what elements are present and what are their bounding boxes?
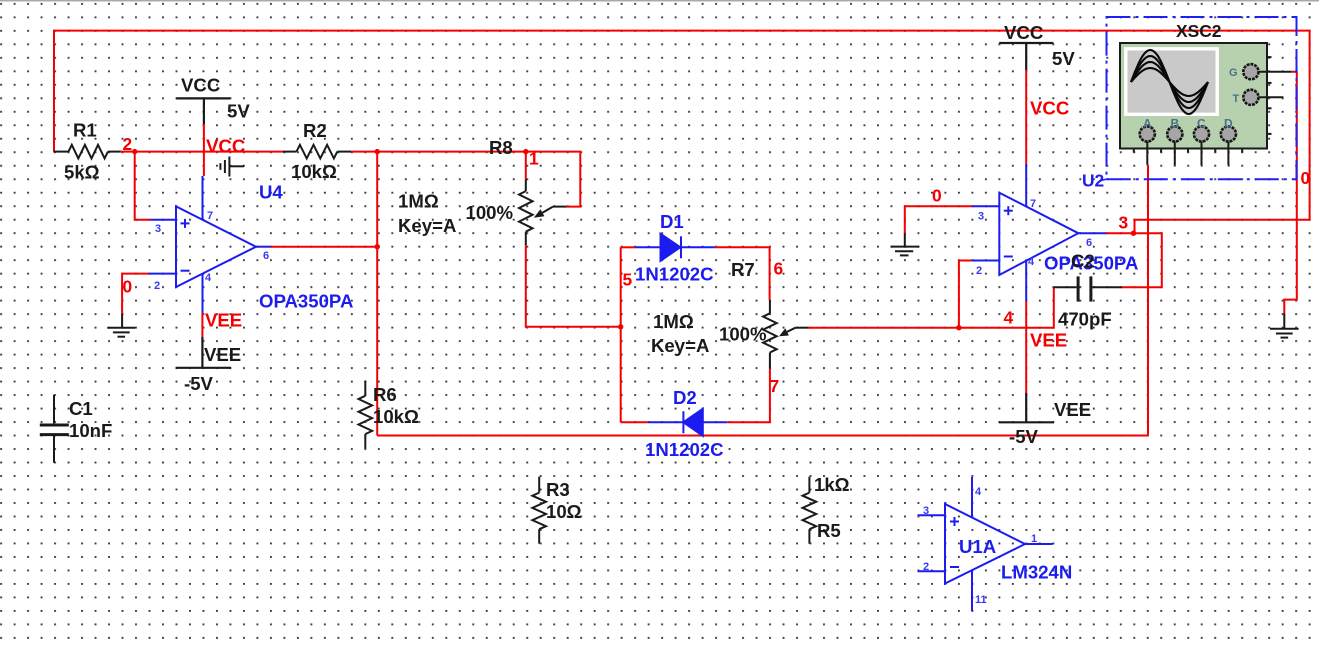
wire R8 top lead <box>525 152 527 180</box>
wire node 2 horizontal R1 to R2 <box>121 151 283 153</box>
svg-text:1: 1 <box>529 149 539 169</box>
chassis ground symbol (near VCC) <box>220 157 244 177</box>
scope channel stubs A B C D <box>1147 142 1228 166</box>
svg-text:1MΩ: 1MΩ <box>653 311 694 332</box>
svg-text:5V: 5V <box>227 101 250 122</box>
U2 leader line to selection box <box>1099 179 1107 181</box>
svg-text:10nF: 10nF <box>69 420 112 441</box>
svg-text:10kΩ: 10kΩ <box>291 161 337 182</box>
svg-text:LM324N: LM324N <box>1001 562 1072 583</box>
svg-text:2: 2 <box>154 280 160 292</box>
svg-text:C1: C1 <box>69 398 93 419</box>
svg-text:4: 4 <box>1028 256 1035 268</box>
svg-text:7: 7 <box>770 376 780 396</box>
svg-text:6: 6 <box>1086 237 1092 249</box>
wire scope G to ground net 0 <box>1284 72 1297 314</box>
svg-text:4: 4 <box>205 272 212 284</box>
wire node 4 R7 wiper to C2 <box>809 287 1054 327</box>
power VCC (U4) <box>176 98 230 124</box>
svg-text:XSC2: XSC2 <box>1176 21 1221 41</box>
svg-text:6: 6 <box>774 259 784 279</box>
node 3 junction <box>1131 231 1136 236</box>
scope terminal T wire <box>1258 96 1283 98</box>
resistor R6 <box>359 381 373 449</box>
svg-text:R2: R2 <box>303 120 327 141</box>
wire scope channel A vertical <box>1147 165 1149 436</box>
svg-text:VEE: VEE <box>205 310 242 331</box>
wire node 7 R7 bottom to D2 <box>727 369 770 423</box>
scope terminal T <box>1243 90 1258 105</box>
svg-text:U4: U4 <box>259 182 283 203</box>
svg-text:0: 0 <box>1301 168 1311 188</box>
scope bottom edge ticks <box>1134 149 1242 153</box>
svg-text:7: 7 <box>207 210 213 222</box>
scope terminal G <box>1243 64 1258 79</box>
sine waveform trace 2 <box>1131 56 1208 108</box>
svg-text:5kΩ: 5kΩ <box>64 162 100 183</box>
diode D2 <box>648 409 727 436</box>
svg-text:OPA350PA: OPA350PA <box>259 291 353 312</box>
wire R8 bottom to node 5 <box>526 245 621 327</box>
scope right edge ticks <box>1267 57 1272 134</box>
sine waveform trace 3 <box>1131 62 1208 102</box>
node 1 junction top <box>375 149 380 154</box>
diode D1 <box>635 234 715 261</box>
scope terminal C <box>1194 126 1209 141</box>
capacitor C1 <box>40 395 69 463</box>
svg-text:4: 4 <box>975 486 982 498</box>
selection box (dash-dot) around XSC2 <box>1107 17 1297 179</box>
svg-text:3: 3 <box>1119 213 1129 233</box>
ground (scope G, net 0) <box>1270 314 1299 338</box>
svg-text:100%: 100% <box>466 202 514 223</box>
node 2 junction <box>132 149 137 154</box>
svg-text:0: 0 <box>123 277 133 297</box>
svg-text:10kΩ: 10kΩ <box>373 406 419 427</box>
ground (U2 +input, net 0) <box>891 233 920 255</box>
resistor R2 <box>283 145 351 159</box>
svg-text:0: 0 <box>932 186 942 206</box>
svg-text:VCC: VCC <box>181 75 220 96</box>
wire node 0 ground to U2 +input <box>905 206 972 233</box>
svg-text:2: 2 <box>923 561 929 573</box>
svg-text:Key=A: Key=A <box>651 335 709 356</box>
sine waveform trace 4 <box>1131 68 1208 96</box>
svg-text:10Ω: 10Ω <box>546 501 582 522</box>
wire R8 top to wiper <box>526 152 581 207</box>
svg-text:100%: 100% <box>719 324 767 345</box>
wire D1 anode <box>621 246 636 248</box>
svg-text:C: C <box>1197 117 1206 131</box>
wire node 1 R2 to R8 <box>351 151 526 153</box>
wire VCC to U4 pin 7 <box>203 124 205 176</box>
wire feedback loop output U2 to R1 and top rail <box>54 31 1310 234</box>
power VEE (U2) <box>999 393 1054 422</box>
wire node 6 D1 to R7 top <box>715 247 770 300</box>
op-amp U1A <box>918 477 1053 611</box>
svg-text:A: A <box>1143 117 1152 131</box>
oscilloscope screen <box>1126 49 1217 115</box>
wire bottom node 1 horizontal <box>377 435 1148 437</box>
svg-text:Key=A: Key=A <box>398 215 456 236</box>
resistor R5 <box>803 477 817 544</box>
resistor R1 <box>53 145 120 159</box>
svg-text:3: 3 <box>155 223 161 235</box>
wire node 0 U4 -input to ground <box>122 274 149 314</box>
wire D2 cathode side <box>621 421 649 423</box>
svg-text:R5: R5 <box>817 520 841 541</box>
wire VCC to U2 pin 7 <box>1025 70 1027 164</box>
svg-text:D1: D1 <box>660 211 684 232</box>
potentiometer R7 <box>763 300 808 368</box>
svg-text:470pF: 470pF <box>1058 309 1112 330</box>
svg-text:G: G <box>1229 67 1238 79</box>
wire U4 pin 4 to VEE <box>201 313 203 337</box>
node 1 junction at U4 output <box>375 244 380 249</box>
node 1 junction at R8 <box>523 149 528 154</box>
svg-text:VEE: VEE <box>1054 399 1091 420</box>
svg-text:R8: R8 <box>489 137 513 158</box>
wire U2 pin 4 to VEE <box>1025 301 1027 393</box>
svg-text:1: 1 <box>1031 533 1037 545</box>
sine waveform trace 1 <box>1131 50 1208 114</box>
ground (U4 -input, net 0) <box>107 314 135 337</box>
svg-text:VEE: VEE <box>204 344 241 365</box>
svg-text:1MΩ: 1MΩ <box>398 191 439 212</box>
svg-text:VCC: VCC <box>1030 98 1069 119</box>
svg-text:D: D <box>1224 117 1233 131</box>
svg-text:B: B <box>1171 117 1180 131</box>
svg-text:5: 5 <box>623 270 633 290</box>
oscilloscope XSC2 body <box>1120 43 1267 149</box>
op-amp U2 <box>972 164 1106 301</box>
op-amp U4 <box>149 176 271 313</box>
svg-text:5V: 5V <box>1052 48 1075 69</box>
potentiometer R8 <box>519 179 566 245</box>
svg-text:4: 4 <box>1004 308 1014 328</box>
svg-text:-5V: -5V <box>184 373 214 394</box>
resistor R3 <box>532 477 546 544</box>
svg-text:C2: C2 <box>1071 251 1095 272</box>
wire node 2 to U4 +input <box>135 152 151 220</box>
svg-text:VCC: VCC <box>1004 22 1043 43</box>
wire node 4 to U2 -input <box>959 261 972 328</box>
svg-text:2: 2 <box>123 134 133 154</box>
svg-text:R1: R1 <box>73 120 97 141</box>
scope terminal B <box>1167 126 1182 141</box>
svg-text:T: T <box>1233 93 1240 105</box>
svg-text:1kΩ: 1kΩ <box>814 474 850 495</box>
svg-text:1N1202C: 1N1202C <box>645 439 724 460</box>
wire U4 output <box>271 246 378 248</box>
svg-text:U1A: U1A <box>959 536 996 557</box>
svg-text:1N1202C: 1N1202C <box>635 264 714 285</box>
svg-text:R3: R3 <box>546 479 570 500</box>
wire node 5 vertical D1 to D2 <box>620 247 622 422</box>
svg-text:-5V: -5V <box>1009 426 1039 447</box>
svg-text:VCC: VCC <box>206 136 245 157</box>
svg-text:6: 6 <box>263 250 269 262</box>
node 4 junction <box>956 325 961 330</box>
scope terminal D <box>1221 126 1236 141</box>
wire node 1 vertical <box>376 152 378 436</box>
node 5 junction <box>618 324 623 329</box>
wire U2 output node 3 <box>1106 232 1134 234</box>
scope terminal G wire <box>1258 71 1291 73</box>
power VCC (U2) <box>999 43 1053 70</box>
svg-text:D2: D2 <box>673 387 697 408</box>
svg-text:3: 3 <box>978 211 984 223</box>
capacitor C2 <box>1054 276 1122 301</box>
svg-text:R7: R7 <box>731 259 755 280</box>
svg-text:3: 3 <box>923 505 929 517</box>
scope terminal A <box>1140 126 1155 141</box>
svg-text:7: 7 <box>1030 198 1036 210</box>
svg-text:VEE: VEE <box>1030 330 1067 351</box>
svg-text:11: 11 <box>975 594 987 606</box>
svg-text:R6: R6 <box>373 384 397 405</box>
svg-text:2: 2 <box>976 265 982 277</box>
wire node 3 to C2 <box>1122 233 1162 287</box>
power VEE (U4) <box>176 337 231 368</box>
